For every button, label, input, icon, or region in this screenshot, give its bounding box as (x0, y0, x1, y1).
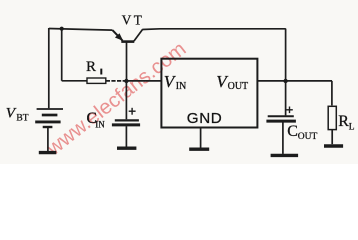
wire CIN bottom lead (125, 126, 127, 146)
wire battery vertical (48, 28, 50, 108)
ground under CIN (117, 146, 136, 149)
svg-text:R: R (338, 113, 349, 130)
svg-text:GND: GND (187, 110, 223, 127)
node junction VIN (124, 79, 128, 83)
svg-text:V: V (6, 105, 17, 122)
transistor VT (113, 29, 143, 41)
battery VBT (35, 109, 63, 127)
capacitor COUT (266, 107, 296, 122)
watermark www.elecfans.com (42, 37, 191, 160)
wire regulator GND pin (200, 128, 202, 148)
wire top right (collector to output corner) (142, 28, 285, 31)
svg-text:R: R (86, 59, 96, 75)
wire COUT top lead (285, 81, 287, 115)
ground under COUT (271, 154, 299, 157)
wire VOUT to RL corner (257, 80, 332, 82)
svg-text:L: L (349, 123, 355, 133)
transistor emitter arrow (115, 33, 123, 41)
wire RL bottom lead (331, 130, 333, 145)
wire RL top lead (331, 81, 333, 106)
capacitor CIN (112, 108, 140, 125)
svg-text:IN: IN (95, 119, 105, 129)
svg-text:OUT: OUT (298, 132, 318, 142)
svg-text:www.elecfans.com: www.elecfans.com (42, 37, 191, 160)
svg-text:IN: IN (176, 81, 187, 92)
resistor R1 (87, 78, 106, 83)
ground under battery (39, 151, 57, 154)
resistor RL (328, 106, 336, 129)
wire COUT bottom lead (282, 122, 284, 153)
wire top left (battery + to transistor emitter) (49, 29, 113, 31)
svg-text:VT: VT (122, 13, 144, 28)
ground under regulator (189, 147, 209, 150)
node junction VOUT (283, 79, 287, 83)
wire R1 to VIN node (106, 80, 124, 82)
wire output vertical drop (285, 29, 287, 81)
wire CIN top lead (125, 81, 127, 119)
wire to R1 left (62, 80, 87, 82)
svg-text:OUT: OUT (228, 81, 249, 92)
svg-text:C: C (287, 123, 298, 140)
wire R1 branch vertical (61, 29, 63, 81)
wire battery bottom lead (47, 128, 49, 151)
regulator U1 box (161, 59, 257, 128)
ground under RL (324, 144, 343, 147)
wire transistor base vertical (126, 42, 128, 81)
node junction top-left (60, 27, 64, 31)
svg-text:BT: BT (16, 114, 28, 124)
